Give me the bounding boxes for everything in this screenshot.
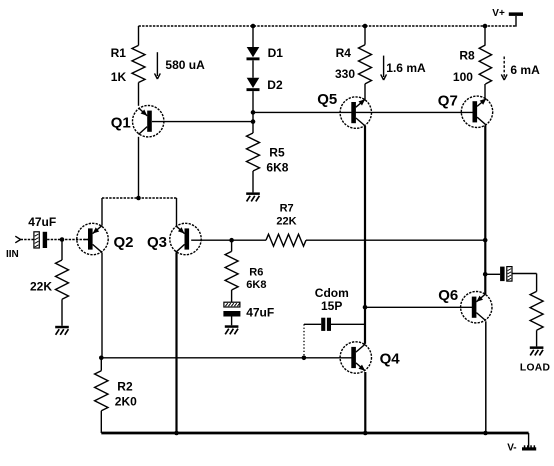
svg-text:1.6 mA: 1.6 mA <box>386 61 426 75</box>
svg-text:22K: 22K <box>30 279 52 293</box>
svg-text:Cdom: Cdom <box>315 286 349 300</box>
svg-text:580 uA: 580 uA <box>165 58 205 72</box>
svg-text:22K: 22K <box>276 216 296 228</box>
svg-text:47uF: 47uF <box>28 215 56 229</box>
svg-text:IIN: IIN <box>6 249 19 260</box>
svg-text:6K8: 6K8 <box>266 160 288 174</box>
svg-text:D1: D1 <box>268 46 284 60</box>
svg-text:Q4: Q4 <box>380 351 401 368</box>
svg-text:47uF: 47uF <box>246 305 274 319</box>
svg-text:V+: V+ <box>492 8 505 19</box>
svg-text:330: 330 <box>335 67 355 81</box>
svg-text:6K8: 6K8 <box>246 279 266 291</box>
svg-text:R8: R8 <box>459 49 475 63</box>
svg-text:Q7: Q7 <box>438 93 458 110</box>
svg-text:Q3: Q3 <box>147 234 167 251</box>
svg-text:V-: V- <box>507 443 516 454</box>
svg-text:R1: R1 <box>111 46 127 60</box>
svg-text:LOAD: LOAD <box>520 363 550 374</box>
svg-text:Q5: Q5 <box>317 91 337 108</box>
svg-text:R5: R5 <box>269 145 285 159</box>
svg-text:D2: D2 <box>267 78 283 92</box>
svg-text:100: 100 <box>453 70 473 84</box>
svg-text:R7: R7 <box>280 203 294 215</box>
svg-text:2K0: 2K0 <box>115 395 137 409</box>
svg-text:15P: 15P <box>321 299 342 313</box>
svg-text:R2: R2 <box>117 379 133 393</box>
svg-text:R6: R6 <box>249 266 263 278</box>
svg-text:R4: R4 <box>336 46 352 60</box>
svg-text:Q6: Q6 <box>438 287 458 304</box>
svg-text:1K: 1K <box>111 70 127 84</box>
svg-text:Q2: Q2 <box>114 234 134 251</box>
svg-text:Q1: Q1 <box>111 114 131 131</box>
svg-text:6 mA: 6 mA <box>510 63 540 77</box>
